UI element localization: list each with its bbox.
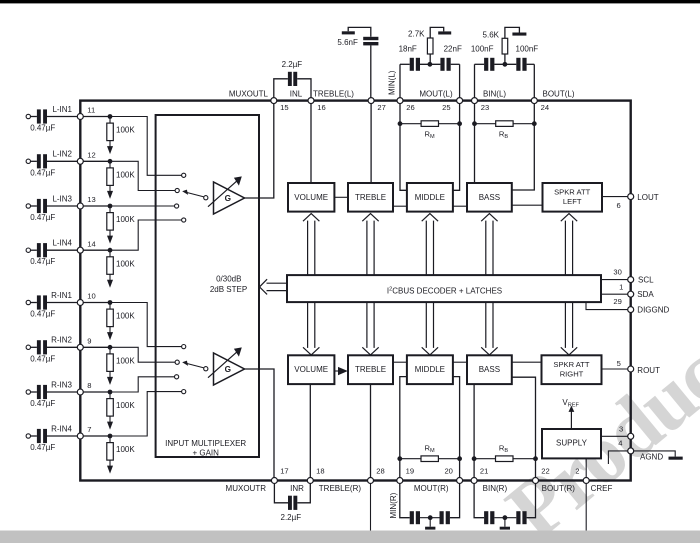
wire pin 19 to MIDDLE (lower) — [400, 377, 407, 481]
SPKR ATT RIGHT block — [542, 355, 602, 384]
pin number 18 — [316, 467, 324, 476]
resistor 100K (L-IN4) — [107, 252, 136, 274]
bottom grey bar — [0, 531, 700, 543]
I2C bus decoder + latches box — [287, 275, 601, 302]
capacitor 0.47uF (R-IN3) — [30, 385, 55, 408]
svg-text:L-IN2: L-IN2 — [52, 150, 72, 159]
wire pin 7 to node — [83, 435, 110, 437]
resistor 100K (R-IN4) — [107, 438, 136, 460]
svg-text:BOUT(L): BOUT(L) — [543, 89, 575, 98]
svg-text:26: 26 — [406, 103, 414, 112]
svg-text:RB: RB — [499, 443, 508, 454]
svg-text:SCL: SCL — [638, 275, 654, 284]
ground arrow (L-IN3) — [107, 230, 113, 244]
svg-text:SPKR ATT: SPKR ATT — [553, 360, 590, 369]
capacitor 22nF — [420, 45, 462, 71]
svg-text:22nF: 22nF — [444, 45, 462, 54]
capacitor 0.47uF (R-IN4) — [30, 429, 55, 452]
pin 3 — [619, 424, 634, 439]
wire L-IN1 to pin 11 — [47, 116, 78, 118]
svg-text:SUPPLY: SUPPLY — [556, 439, 588, 448]
pin number 20 — [444, 467, 452, 476]
pin number 16 — [317, 103, 325, 112]
svg-text:BASS: BASS — [479, 365, 500, 374]
resistor RB (lower) — [474, 443, 535, 461]
label MUXOUTR — [226, 484, 267, 493]
label L-IN3 — [52, 194, 72, 203]
svg-text:30: 30 — [613, 267, 621, 276]
wire pin 18 to VOLUME (lower) — [309, 384, 311, 480]
label TREBLE(L) — [313, 89, 354, 98]
svg-text:25: 25 — [442, 103, 450, 112]
input terminal R-IN1 — [26, 300, 37, 304]
pin number 17 — [280, 467, 288, 476]
pin number 9 — [87, 337, 91, 346]
svg-text:MIDDLE: MIDDLE — [415, 193, 445, 202]
pin 4 AGND — [618, 439, 663, 462]
BASS block (right) — [467, 355, 512, 384]
svg-text:0.47µF: 0.47µF — [30, 310, 55, 319]
ground bar AGND — [669, 457, 683, 460]
svg-text:Product: Product — [490, 310, 700, 543]
svg-text:0.47µF: 0.47µF — [30, 257, 55, 266]
label CREF — [591, 484, 613, 493]
pin number 8 — [87, 381, 91, 390]
wire pin 20 to MIDDLE (lower) — [453, 377, 460, 481]
svg-text:100K: 100K — [116, 312, 135, 321]
control arrow I2C to TREBLE (upper) — [362, 214, 378, 276]
svg-text:L-IN3: L-IN3 — [52, 194, 72, 203]
pin 17 circle (bottom edge) — [271, 478, 277, 484]
svg-text:I2CBUS DECODER + LATCHES: I2CBUS DECODER + LATCHES — [387, 286, 502, 295]
wire L-IN4 to pin 14 — [47, 249, 78, 251]
op-amp G (right channel) — [208, 347, 245, 385]
ground arrow (L-IN2) — [107, 185, 113, 199]
wire I2C to SDA — [601, 293, 628, 295]
control arrow I2C to MIDDLE (upper) — [422, 214, 438, 276]
svg-text:TREBLE: TREBLE — [355, 193, 386, 202]
pin number 12 — [87, 151, 95, 160]
svg-text:BOUT(R): BOUT(R) — [542, 484, 576, 493]
svg-text:0.47µF: 0.47µF — [30, 168, 55, 177]
control arrow I2C to VOLUME (lower) — [303, 302, 319, 355]
wire pin 27 to TREBLE — [370, 104, 372, 183]
svg-text:R-IN4: R-IN4 — [51, 424, 72, 433]
pin 25 circle (top edge) — [457, 98, 463, 104]
svg-text:INPUT MULTIPLEXER: INPUT MULTIPLEXER — [165, 439, 246, 448]
svg-text:MOUT(L): MOUT(L) — [419, 89, 453, 98]
svg-text:5: 5 — [617, 359, 621, 368]
junction node (L-IN2) — [108, 159, 113, 164]
svg-text:100K: 100K — [116, 401, 135, 410]
label MIN(R) (rotated) — [389, 492, 398, 518]
pin 24 circle (top edge) — [531, 98, 537, 104]
pin 21 circle (bottom edge) — [471, 478, 477, 484]
wire pin 26 to MIDDLE — [400, 104, 407, 191]
wire pin 4 stub — [608, 451, 628, 464]
svg-text:RIGHT: RIGHT — [560, 370, 584, 379]
ground arrow (R-IN3) — [107, 416, 113, 430]
pin number 2 — [575, 467, 579, 476]
svg-text:BIN(R): BIN(R) — [483, 484, 508, 493]
TREBLE block (right) — [348, 355, 393, 384]
input terminal L-IN2 — [26, 159, 37, 163]
svg-text:SPKR ATT: SPKR ATT — [554, 188, 591, 197]
junction node (R-IN4) — [108, 434, 113, 439]
label BOUT(L) — [543, 89, 575, 98]
resistor RM (upper) — [400, 121, 460, 140]
capacitor 18nF — [399, 45, 420, 71]
svg-text:10: 10 — [87, 292, 95, 301]
wire pin 21 to BASS (lower) — [473, 384, 475, 480]
pin 29 DIGGND — [613, 297, 669, 314]
ground bar MOUT(R) — [425, 527, 435, 530]
wire pin 28 to TREBLE (lower) — [370, 384, 372, 480]
svg-text:3: 3 — [619, 424, 623, 433]
capacitor 0.47uF (R-IN1) — [30, 295, 55, 318]
label TREBLE(R) — [319, 484, 362, 493]
pin number 13 — [87, 195, 95, 204]
svg-text:5.6nF: 5.6nF — [337, 38, 358, 47]
pin number 19 — [406, 467, 414, 476]
resistor 5.6K — [483, 27, 520, 64]
svg-text:24: 24 — [541, 103, 549, 112]
MIDDLE block (right) — [407, 355, 453, 384]
wire pin 24 to BASS — [512, 104, 535, 190]
control arrow I2C to MIDDLE (lower) — [422, 302, 438, 355]
pin 14 circle — [77, 247, 83, 253]
mux contact R4 — [182, 390, 186, 394]
capacitor 18nF (bottom left of MOUT(R)) — [400, 484, 420, 525]
capacitor 0.47uF (R-IN2) — [30, 340, 55, 363]
wire L-IN2 to mux contact — [110, 161, 175, 190]
mux contact R2 — [175, 360, 179, 364]
svg-text:LOUT: LOUT — [637, 193, 658, 202]
svg-text:MIDDLE: MIDDLE — [415, 365, 445, 374]
node RB left (lower) — [472, 456, 477, 461]
SPKR ATT LEFT block — [543, 183, 603, 212]
wire R-IN2 to mux contact — [110, 347, 175, 362]
junction node (R-IN2) — [108, 345, 113, 350]
label BIN(L) — [483, 89, 506, 98]
junction node (L-IN4) — [108, 248, 113, 253]
wire pin 8 to node — [83, 391, 110, 393]
resistor 100K (R-IN1) — [107, 305, 136, 327]
junction node (R-IN1) — [108, 300, 113, 305]
wire pin 4 to AGND — [634, 451, 676, 457]
resistor 100K (L-IN3) — [107, 208, 136, 230]
svg-text:14: 14 — [87, 239, 95, 248]
ground bar BIN(R) — [500, 527, 510, 530]
control arrow I2C to BASS (lower) — [481, 302, 497, 355]
svg-text:MIN(L): MIN(L) — [388, 70, 397, 95]
svg-text:23: 23 — [481, 103, 489, 112]
input terminal L-IN4 — [26, 248, 37, 252]
pin 30 SCL — [613, 267, 654, 284]
wire L-IN1 to mux contact — [110, 117, 182, 176]
wire L-IN2 to pin 12 — [47, 160, 78, 162]
svg-text:100K: 100K — [116, 171, 135, 180]
BASS block (left) — [467, 183, 512, 212]
control arrow I2C to TREBLE (lower) — [362, 302, 378, 355]
input terminal L-IN3 — [26, 204, 37, 208]
svg-text:2: 2 — [575, 467, 579, 476]
wire R-IN3 to pin 8 — [47, 391, 78, 393]
wire MIDDLE-BASS (upper) — [453, 205, 467, 207]
svg-text:R-IN1: R-IN1 — [51, 291, 72, 300]
svg-text:R-IN2: R-IN2 — [51, 336, 72, 345]
control arrow I2C to BASS (upper) — [481, 214, 497, 276]
SUPPLY block — [542, 429, 601, 458]
arrow VOLUME-TREBLE (lower) — [334, 367, 347, 375]
pin number 22 — [541, 467, 549, 476]
wire I2C to SCL — [601, 279, 628, 281]
svg-text:5.6K: 5.6K — [483, 30, 500, 39]
mux contact R3 — [175, 375, 179, 379]
svg-text:0.47µF: 0.47µF — [30, 354, 55, 363]
wire VOLUME-TREBLE (upper) — [334, 196, 348, 198]
svg-text:L-IN4: L-IN4 — [52, 239, 72, 248]
svg-text:29: 29 — [613, 297, 621, 306]
junction node (L-IN3) — [108, 204, 113, 209]
wire SUPPLY to pin 2 — [585, 458, 587, 480]
svg-text:TREBLE(L): TREBLE(L) — [313, 89, 354, 98]
pin 15 circle (top edge) — [271, 98, 277, 104]
capacitor 0.47uF (L-IN1) — [30, 109, 55, 132]
svg-text:MUXOUTR: MUXOUTR — [226, 484, 267, 493]
label BIN(R) — [483, 484, 508, 493]
node BIN(R) junction — [503, 515, 508, 526]
label L-IN1 — [52, 105, 72, 114]
label BOUT(R) — [542, 484, 576, 493]
pin 9 circle — [77, 344, 83, 350]
input terminal R-IN3 — [26, 390, 37, 394]
pin number 15 — [280, 103, 288, 112]
resistor 100K (R-IN3) — [107, 394, 136, 416]
svg-text:G: G — [225, 194, 231, 203]
node RM right (lower) — [457, 456, 462, 461]
label R-IN2 — [51, 336, 72, 345]
input terminal R-IN4 — [26, 434, 37, 438]
capacitor 0.47uF (L-IN3) — [30, 199, 55, 222]
svg-text:13: 13 — [87, 195, 95, 204]
svg-text:100nF: 100nF — [516, 44, 539, 53]
wire pin 24 riser — [533, 64, 535, 100]
svg-text:2.2µF: 2.2µF — [281, 513, 302, 522]
ground bar (2.7K) — [438, 31, 451, 34]
node RB right (lower) — [533, 456, 538, 461]
junction node (R-IN3) — [108, 390, 113, 395]
wire pin 23 riser — [474, 64, 476, 100]
wire R-IN3 to mux contact — [110, 377, 174, 392]
pin 12 circle — [77, 158, 83, 164]
node RM left (lower) — [397, 456, 402, 461]
resistor RM (lower) — [400, 443, 460, 461]
svg-text:L-IN1: L-IN1 — [52, 105, 72, 114]
svg-text:11: 11 — [87, 106, 95, 115]
capacitor 2.2uF (top, pins 15-16) — [274, 60, 311, 97]
label MOUT(L) — [419, 89, 453, 98]
resistor RB (upper) — [475, 121, 535, 140]
resistor 100K (L-IN1) — [107, 119, 136, 141]
ground arrow (R-IN1) — [107, 327, 113, 341]
label R-IN3 — [51, 380, 72, 389]
label L-IN2 — [52, 150, 72, 159]
label MIN(L) (rotated) — [388, 70, 397, 95]
svg-text:16: 16 — [317, 103, 325, 112]
control arrow I2C to VOLUME (upper) — [303, 214, 319, 276]
svg-text:AGND: AGND — [640, 452, 663, 461]
mux contact L1 — [182, 173, 186, 177]
pin 2 circle (bottom edge) — [583, 478, 589, 484]
svg-text:9: 9 — [87, 337, 91, 346]
svg-text:0.47µF: 0.47µF — [30, 124, 55, 133]
wire R-IN1 to pin 10 — [47, 302, 78, 304]
pin 1 SDA — [619, 282, 654, 299]
svg-text:CREF: CREF — [591, 484, 613, 493]
capacitor 100nF (left) — [471, 44, 495, 70]
wire BASS-SPKRATT (lower) — [512, 361, 542, 363]
svg-text:1: 1 — [619, 282, 623, 291]
pin 23 circle (top edge) — [472, 98, 478, 104]
pin 22 circle (bottom edge) — [533, 478, 539, 484]
svg-text:7: 7 — [87, 425, 91, 434]
wire pin 25 to MIDDLE — [453, 104, 460, 191]
svg-text:6: 6 — [617, 201, 621, 210]
label R-IN4 — [51, 424, 72, 433]
ground bar (5.6nF) — [342, 31, 355, 34]
svg-text:100K: 100K — [116, 126, 135, 135]
pin 7 circle — [77, 433, 83, 439]
top black bar — [0, 0, 700, 3]
wire pin 26 riser — [399, 64, 401, 100]
switch wiper (left) — [182, 190, 208, 200]
pin 18 circle (bottom edge) — [307, 478, 313, 484]
svg-text:RB: RB — [499, 129, 508, 140]
svg-text:MIN(R): MIN(R) — [389, 492, 398, 518]
VREF arrow — [562, 398, 579, 428]
pin number 7 — [87, 425, 91, 434]
capacitor 5.6nF (pin 27) — [337, 27, 378, 97]
pin 16 circle (top edge) — [308, 98, 314, 104]
wire pin 14 to node — [83, 249, 110, 251]
mux contact L3 — [175, 204, 179, 208]
svg-text:TREBLE(R): TREBLE(R) — [319, 484, 362, 493]
node RB left — [472, 121, 477, 126]
pin number 26 — [406, 103, 414, 112]
wire R-IN4 to mux contact — [110, 392, 182, 436]
svg-text:MUXOUTL: MUXOUTL — [229, 89, 269, 98]
input multiplexer + gain box — [156, 115, 259, 457]
junction node (L-IN1) — [108, 114, 113, 119]
resistor 2.7K — [408, 27, 444, 64]
resistor 100K (L-IN2) — [107, 163, 136, 185]
VOLUME block (left) — [288, 183, 334, 212]
svg-text:DIGGND: DIGGND — [637, 305, 669, 314]
wire pin 28 external — [370, 484, 372, 531]
input terminal L-IN1 — [26, 114, 37, 118]
wire amp R output to pin 17 — [245, 369, 275, 481]
label R-IN1 — [51, 291, 72, 300]
pin 8 circle — [77, 389, 83, 395]
wire R-IN4 to pin 7 — [47, 435, 78, 437]
ground arrow (R-IN4) — [107, 460, 113, 474]
watermark "Product" — [490, 310, 700, 543]
svg-text:100K: 100K — [116, 259, 135, 268]
svg-text:18: 18 — [316, 467, 324, 476]
IC outline (main block) — [80, 101, 630, 481]
label MOUT(R) — [414, 484, 449, 493]
svg-text:RM: RM — [425, 129, 435, 140]
capacitor 100nF (bottom right of BIN(R)) — [494, 484, 535, 525]
svg-text:100K: 100K — [116, 215, 135, 224]
svg-text:VREF: VREF — [562, 398, 579, 409]
svg-text:2.7K: 2.7K — [408, 30, 425, 39]
pin 10 circle — [77, 300, 83, 306]
capacitor 100nF (bottom left of BIN(R)) — [474, 484, 494, 525]
label INL — [290, 89, 303, 98]
wire pin 2 external — [585, 484, 587, 531]
wire pin 10 to node — [83, 302, 110, 304]
node 5.6K/caps junction — [503, 62, 508, 67]
pin number 14 — [87, 239, 95, 248]
svg-text:28: 28 — [376, 467, 384, 476]
svg-text:100K: 100K — [116, 445, 135, 454]
capacitor 22nF (bottom right of MOUT(R)) — [420, 484, 460, 525]
svg-text:100nF: 100nF — [471, 44, 494, 53]
control arrow I2C to SPKR ATT (lower) — [561, 302, 577, 355]
0/30dB 2dB STEP label — [210, 275, 247, 294]
wire L-IN3 to pin 13 — [47, 205, 78, 207]
pin number 25 — [442, 103, 450, 112]
control arrow I2C to SPKR ATT (upper) — [561, 214, 577, 276]
wire pin 13 to node — [83, 205, 110, 207]
node RM right — [457, 121, 462, 126]
label MUXOUTL — [229, 89, 269, 98]
svg-text:+ GAIN: + GAIN — [192, 448, 219, 457]
op-amp G (left channel) — [208, 176, 245, 214]
pin 13 circle — [77, 203, 83, 209]
svg-text:4: 4 — [618, 439, 622, 448]
node MOUT(R) junction — [428, 515, 433, 526]
label INR — [290, 484, 304, 493]
node 2.7K/caps junction — [428, 62, 433, 67]
wire TREBLE-MIDDLE (upper) — [393, 205, 407, 207]
svg-text:G: G — [225, 365, 231, 374]
wire pin 25 riser — [459, 64, 461, 100]
wire pin 9 to node — [83, 346, 110, 348]
svg-text:INR: INR — [290, 484, 304, 493]
svg-text:2.2µF: 2.2µF — [282, 60, 303, 69]
wire pin 12 to node — [83, 160, 110, 162]
svg-text:LEFT: LEFT — [563, 197, 582, 206]
pin number 11 — [87, 106, 95, 115]
wire L-IN3 to mux contact — [110, 205, 174, 207]
svg-text:VOLUME: VOLUME — [294, 365, 328, 374]
node RM left — [398, 121, 403, 126]
pin number 23 — [481, 103, 489, 112]
svg-text:15: 15 — [280, 103, 288, 112]
wire SUPPLY to pin 3 — [601, 435, 628, 437]
svg-text:27: 27 — [377, 103, 385, 112]
svg-text:22: 22 — [541, 467, 549, 476]
svg-text:17: 17 — [280, 467, 288, 476]
svg-text:BASS: BASS — [479, 193, 500, 202]
resistor 100K (R-IN2) — [107, 349, 136, 371]
svg-text:2dB STEP: 2dB STEP — [210, 285, 247, 294]
pin 27 circle (top edge) — [368, 98, 374, 104]
wire pin 23 to BASS — [474, 104, 476, 183]
